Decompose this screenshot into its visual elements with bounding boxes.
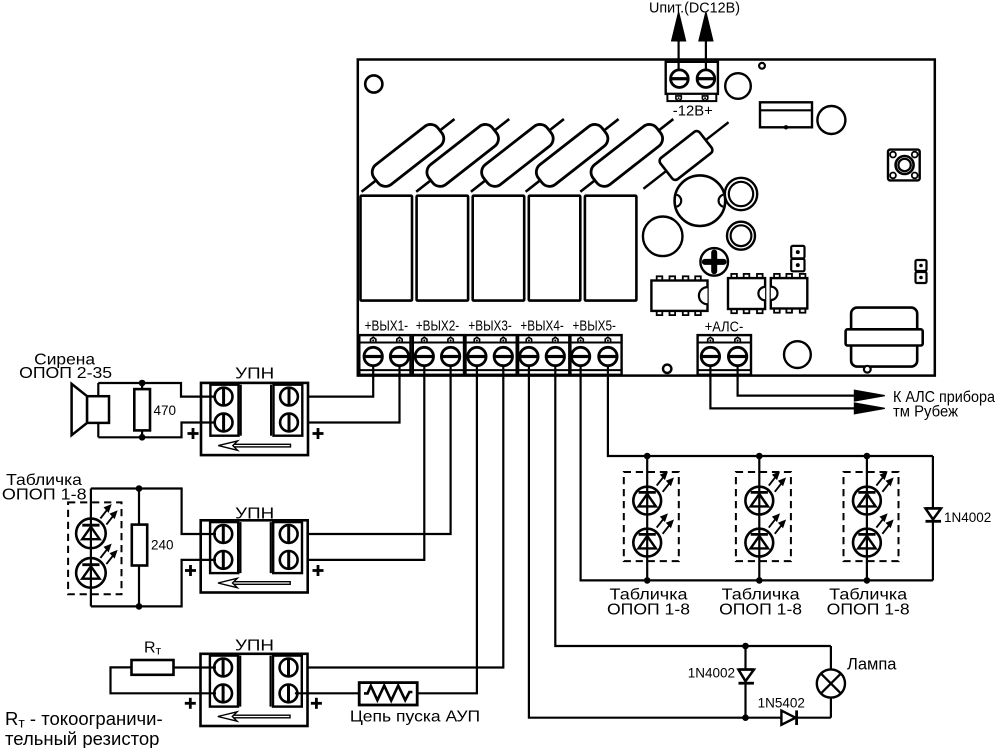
junction dot tablichka2 bottom	[756, 577, 763, 584]
jumper JP1 (two pins)	[791, 246, 804, 271]
UPN1 block	[201, 383, 308, 455]
terminal block VYX4	[518, 335, 569, 375]
hole near 12V terminal	[759, 63, 765, 69]
arrow to ALS rubezh	[854, 403, 884, 414]
resistor R5 (diagonal)	[573, 109, 681, 201]
tact switch SB1	[888, 150, 920, 181]
LED tablichka3 lower	[853, 514, 893, 557]
LED HL2	[76, 544, 117, 588]
plus right UPN3	[311, 698, 322, 709]
label OPOP 2-35	[19, 365, 112, 382]
mounting hole top-left	[365, 75, 382, 92]
label Tablichka 3	[829, 587, 907, 604]
plus left UPN2	[185, 565, 196, 576]
svg-text:тм Рубеж: тм Рубеж	[893, 403, 959, 420]
svg-text:240: 240	[151, 538, 174, 553]
svg-text:+ВЫХ4-: +ВЫХ4-	[520, 318, 564, 334]
arrow Upit left	[672, 12, 686, 70]
resistor Rt	[132, 660, 174, 675]
label +ALS-	[705, 320, 744, 336]
wire row1 bottom rail	[98, 423, 216, 438]
wire Rt left loop	[111, 667, 217, 693]
label Upit DC12V	[649, 1, 740, 17]
AUP start circuit resistor (zigzag)	[359, 683, 417, 705]
wire VYX2- to UPN2 top	[293, 366, 451, 534]
plus right UPN1	[313, 428, 324, 439]
plus right UPN2	[313, 565, 324, 576]
wire tablichka1 string bottom	[646, 556, 648, 580]
svg-text:1N4002: 1N4002	[688, 666, 735, 681]
label 1N4002 right	[944, 510, 991, 525]
LED tablichka1 lower	[633, 514, 673, 557]
svg-text:УПН: УПН	[235, 637, 274, 654]
label Lampa	[847, 656, 897, 674]
label UPN3	[235, 637, 274, 654]
label UPN2	[235, 506, 274, 523]
dashed box tablichka 1	[624, 472, 679, 561]
screw with phillips cross	[700, 248, 728, 276]
wire VYX5- top rail tablichki	[608, 366, 933, 456]
relay K3	[473, 196, 525, 301]
diode VD1 (diagonal)	[635, 112, 737, 200]
wire tablichki right vertical upper	[932, 456, 934, 509]
junction dot lamp bottom	[742, 714, 749, 721]
resistor 240	[132, 525, 147, 566]
label OPOP 1-8 (1)	[607, 602, 690, 619]
label 470	[154, 403, 177, 418]
label Rt footnote line1	[5, 708, 163, 731]
jumper JP2 (two pins, right edge)	[916, 260, 927, 283]
wire row2 top rail	[91, 489, 216, 535]
LED HL1	[76, 505, 117, 549]
diode 1N4002 (right)	[926, 509, 942, 522]
wire VYX3+ to AUP resistor	[417, 366, 477, 694]
wire UPN3 to AUP resistor	[295, 692, 359, 694]
junction dot row2 bottom	[136, 603, 143, 610]
resistor R1 (diagonal)	[354, 109, 462, 201]
junction dot tablichka1 top	[644, 453, 651, 460]
wire VYX5+ bottom rail tablichki	[581, 366, 933, 581]
dashed box tablichka 2	[736, 472, 791, 561]
junction dot row1 top	[139, 380, 146, 387]
wire siren bottom stub	[97, 423, 99, 437]
wire tablichka2 string bottom	[758, 556, 760, 580]
svg-text:ОПОП 2-35: ОПОП 2-35	[19, 365, 112, 382]
arrow to ALS pribora	[854, 390, 884, 401]
wire VYX1- to UPN1 bottom	[293, 366, 400, 423]
wire tablichka2 string top	[758, 456, 760, 487]
label +VYX5-	[573, 318, 617, 334]
wire tablichka3 string mid	[866, 514, 868, 528]
diode 1N4002 (lamp)	[739, 670, 754, 684]
plus left UPN1	[188, 428, 199, 439]
svg-text:+ВЫХ5-: +ВЫХ5-	[573, 318, 617, 334]
wire tablichka3 string bottom	[866, 556, 868, 580]
svg-text:тельный резистор: тельный резистор	[5, 728, 159, 748]
svg-text:+ВЫХ1-: +ВЫХ1-	[365, 318, 409, 334]
svg-text:УПН: УПН	[235, 506, 274, 523]
wire lamp bottom stub	[830, 698, 832, 718]
wire 470 top stub	[141, 383, 143, 389]
junction dot lamp top	[742, 643, 749, 650]
LED tablichka1 upper	[633, 472, 673, 515]
svg-text:ОПОП 1-8: ОПОП 1-8	[2, 486, 87, 503]
svg-text:Цепь пуска АУП: Цепь пуска АУП	[350, 709, 480, 726]
wire VYX4+ bottom rail lamp	[529, 366, 782, 718]
wire 240 bottom stub	[138, 566, 140, 607]
circle pad near ALS	[784, 341, 811, 368]
wire VYX4- top rail lamp	[555, 366, 831, 646]
wire led string bottom	[90, 588, 92, 607]
terminal block VYX1	[359, 335, 410, 375]
label +VYX1-	[365, 318, 409, 334]
label Tablichka 1	[610, 587, 688, 604]
UPN3 block	[201, 654, 308, 726]
hole bottom near VYX5	[663, 365, 671, 373]
label OPOP 1-8 left	[2, 486, 87, 503]
label K ALS pribora	[893, 389, 995, 406]
resistor 470	[134, 389, 150, 430]
label +VYX3-	[468, 318, 512, 334]
junction dot tablichka2 top	[756, 453, 763, 460]
svg-text:ОПОП 1-8: ОПОП 1-8	[719, 602, 802, 619]
wire tablichka3 string top	[866, 456, 868, 487]
siren speaker symbol	[72, 384, 109, 435]
wire ALS right to arrow	[738, 366, 855, 396]
label Rt	[144, 640, 162, 658]
svg-text:Uпит.(DC12В): Uпит.(DC12В)	[649, 1, 740, 17]
wire led string middle	[90, 548, 92, 558]
label 1N4002 lamp	[688, 666, 735, 681]
wire 470 bottom stub	[141, 430, 143, 437]
wire VYX1+ to UPN1 top	[293, 366, 373, 397]
relay K4	[529, 196, 581, 301]
label 240	[151, 538, 174, 553]
svg-text:УПН: УПН	[235, 366, 274, 383]
svg-text:-12В+: -12В+	[673, 103, 713, 119]
capacitor ring C3	[727, 222, 755, 250]
junction dot tablichka3 bottom	[864, 577, 871, 584]
wire row2 bottom rail	[91, 560, 216, 607]
label UPN1	[235, 366, 274, 383]
junction dot row2 top	[136, 485, 143, 492]
wire lamp top stub	[830, 646, 832, 669]
label OPOP 1-8 (3)	[827, 602, 910, 619]
relay K1	[361, 196, 413, 301]
label Sirena	[34, 352, 95, 369]
buzzer BZ1 (circle with side notches)	[675, 175, 726, 226]
arrow Upit right	[699, 12, 713, 70]
terminal block VYX2	[413, 335, 464, 375]
resistor R4 (diagonal)	[518, 109, 626, 201]
label -12V+	[673, 103, 713, 119]
label Tablichka left	[6, 472, 82, 489]
IC U3 (DIP-6)	[771, 274, 808, 313]
label +VYX2-	[416, 318, 460, 334]
circle component right of C1	[817, 106, 845, 134]
wire tablichka1 string top	[646, 456, 648, 487]
wire tablichki right vertical lower	[932, 522, 934, 581]
label tm Rubezh	[893, 403, 959, 420]
resistor R3 (diagonal)	[463, 109, 571, 201]
svg-text:+ВЫХ2-: +ВЫХ2-	[416, 318, 460, 334]
svg-text:ОПОП 1-8: ОПОП 1-8	[827, 602, 910, 619]
label +VYX4-	[520, 318, 564, 334]
terminal block VYX5	[570, 335, 621, 375]
wire VYX2+ to UPN2 bottom	[293, 366, 425, 560]
svg-text:1N5402: 1N5402	[758, 695, 805, 710]
power terminal -12V+	[666, 62, 718, 101]
svg-text:+АЛС-: +АЛС-	[705, 320, 744, 336]
label Rt footnote line2	[5, 728, 159, 748]
IC U1 (DIP-8)	[651, 276, 707, 315]
wire 1N4002 lamp top stub	[744, 646, 746, 670]
svg-text:470: 470	[154, 403, 177, 418]
resistor R2 (diagonal)	[409, 109, 517, 201]
transformer T1	[846, 308, 923, 373]
LED tablichka2 lower	[745, 514, 785, 557]
wire siren top stub	[97, 383, 99, 396]
LED tablichka2 upper	[745, 472, 785, 515]
wire tablichka1 string mid	[646, 514, 648, 528]
label Tablichka 2	[722, 587, 800, 604]
wire Rt right to UPN3	[174, 666, 217, 668]
plus left UPN3	[185, 698, 196, 709]
circle pad right of 12V terminal	[725, 73, 751, 99]
wire lamp bottom segment	[796, 717, 831, 719]
wire tablichka2 string mid	[758, 514, 760, 528]
capacitor ring C2	[725, 178, 757, 210]
relay K5	[585, 196, 637, 301]
wire 240 top stub	[138, 489, 140, 525]
diode 1N5402	[781, 710, 796, 725]
wire row1 top rail	[98, 383, 216, 397]
svg-text:ОПОП 1-8: ОПОП 1-8	[607, 602, 690, 619]
junction dot row1 bottom	[139, 434, 146, 441]
PCB board outline	[358, 60, 935, 376]
label OPOP 1-8 (2)	[719, 602, 802, 619]
label Cep puska AUP	[350, 709, 480, 726]
terminal block ALS	[698, 335, 751, 375]
circle pad left of C3	[643, 217, 683, 257]
terminal block VYX3	[466, 335, 517, 375]
IC U2 (DIP-6)	[728, 274, 765, 313]
dashed box tablichka 3	[844, 472, 899, 561]
dashed box tablichka left	[68, 502, 121, 594]
svg-text:+ВЫХ3-: +ВЫХ3-	[468, 318, 512, 334]
relay K2	[417, 196, 469, 301]
wire ALS left to arrow	[710, 366, 854, 409]
svg-text:1N4002: 1N4002	[944, 510, 991, 525]
wire 1N4002 lamp bottom stub	[744, 684, 746, 718]
wire led string top	[90, 489, 92, 519]
wire VYX3- to UPN3 top	[293, 366, 504, 668]
UPN2 block	[201, 520, 308, 592]
junction dot tablichka1 bottom	[644, 577, 651, 584]
lamp HL (circle with X)	[817, 669, 845, 697]
label 1N5402	[758, 695, 805, 710]
junction dot tablichka3 top	[864, 453, 871, 460]
capacitor C1 (rect with line)	[760, 102, 812, 129]
svg-text:Лампа: Лампа	[847, 656, 897, 674]
LED tablichka3 upper	[853, 472, 893, 515]
